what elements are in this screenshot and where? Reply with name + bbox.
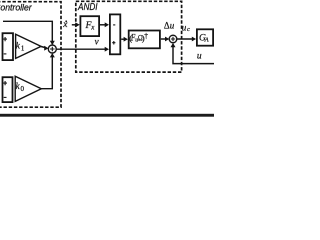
svg-text:c: c — [187, 26, 190, 33]
svg-text:Controller: Controller — [0, 3, 33, 13]
svg-text:ANDI: ANDI — [77, 2, 98, 13]
svg-text:†: † — [144, 31, 148, 40]
svg-text:Δu: Δu — [164, 20, 175, 30]
svg-text:1: 1 — [21, 44, 25, 52]
svg-text:u: u — [197, 52, 202, 62]
svg-text:x: x — [62, 20, 68, 30]
svg-text:A: A — [204, 37, 209, 44]
svg-text:v: v — [95, 36, 99, 46]
svg-text:0: 0 — [21, 85, 25, 93]
